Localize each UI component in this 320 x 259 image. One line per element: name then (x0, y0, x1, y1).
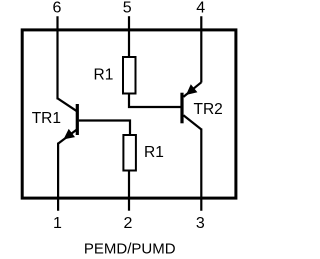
pin 4 lead (200, 16, 202, 82)
transistor TR1 collector wire (58, 98, 78, 111)
pin 3 lead (TR2 collector) (200, 129, 202, 211)
pin 5 lead (128, 16, 130, 57)
pin 1 lead (TR1 emitter) (57, 143, 59, 211)
resistor R1 (lower, base resistor of TR1) (123, 135, 135, 171)
transistor TR2 emitter arrow (points to base, PNP) (186, 84, 197, 95)
svg-text:4: 4 (196, 0, 205, 17)
transistor TR2 (PNP) base bar (180, 93, 183, 124)
svg-text:3: 3 (196, 215, 205, 232)
transistor TR1 (NPN) base bar (76, 104, 79, 135)
pin 6 lead (56, 16, 58, 99)
pin 2 lead (lower R1 to pin) (128, 171, 130, 211)
svg-text:TR2: TR2 (194, 101, 223, 118)
svg-text:6: 6 (53, 0, 62, 17)
svg-text:PEMD/PUMD: PEMD/PUMD (84, 241, 176, 258)
transistor TR1 emitter wire (58, 129, 77, 143)
transistor TR1 base wire to lower R1 (79, 121, 130, 136)
svg-text:R1: R1 (94, 67, 114, 84)
transistor TR1 emitter arrow (points away from base, NPN) (64, 129, 76, 139)
resistor R1 (upper, base resistor of TR2) (123, 57, 136, 94)
package outline (22, 30, 236, 198)
svg-text:5: 5 (123, 0, 132, 17)
svg-text:1: 1 (53, 215, 62, 232)
transistor TR2 collector wire (183, 115, 201, 129)
svg-text:R1: R1 (144, 144, 164, 161)
svg-text:TR1: TR1 (32, 110, 61, 127)
transistor TR2 emitter wire (183, 82, 201, 97)
wire from upper R1 to TR2 base (129, 93, 181, 108)
svg-text:2: 2 (124, 215, 133, 232)
